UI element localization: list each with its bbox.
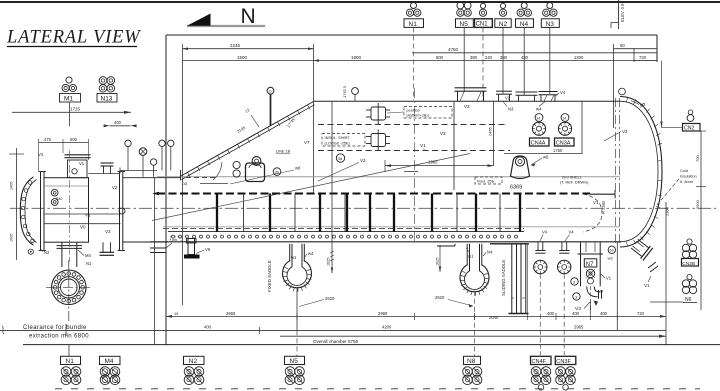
- interior vertical x493.5 with rotated dim 2465: [493, 101, 495, 166]
- svg-text:5. 8mm: 5. 8mm: [680, 179, 693, 184]
- svg-text:400: 400: [600, 311, 608, 316]
- frame right vertical: [656, 35, 658, 62]
- dim 2245: [183, 48, 314, 50]
- svg-text:N2: N2: [499, 21, 508, 28]
- svg-text:w8: w8: [295, 166, 301, 171]
- bundle pull diagonal line: [152, 154, 470, 221]
- svg-text:Insulation: Insulation: [680, 174, 697, 179]
- channel top nozzle V1: [68, 160, 88, 178]
- kettle top nozzle N3: [498, 94, 500, 101]
- svg-text:6369: 6369: [510, 185, 522, 191]
- svg-text:380: 380: [500, 55, 508, 60]
- weir dashed arc inside head: [583, 194, 602, 232]
- dim 1800: [314, 60, 413, 62]
- svg-text:400: 400: [572, 311, 580, 316]
- platform clip big square on cone: [246, 163, 265, 182]
- svg-text:M1: M1: [64, 96, 73, 103]
- bottom label CN3F group: [563, 345, 565, 357]
- note circles on small shell top left: [125, 140, 131, 146]
- small shell bottom left segment: [123, 241, 168, 243]
- svg-text:1725: 1725: [70, 107, 81, 112]
- svg-text:N1: N1: [66, 358, 75, 365]
- svg-text:N13: N13: [101, 96, 113, 103]
- svg-text:G: G: [269, 89, 272, 94]
- kettle top nozzle w4: [540, 95, 542, 102]
- kettle shell top line: [314, 100, 621, 102]
- svg-text:14: 14: [562, 116, 566, 120]
- svg-text:V3: V3: [440, 131, 446, 136]
- top nozzle label N5: [457, 2, 464, 9]
- vessel vertical centerline dash-dot: [414, 88, 416, 242]
- bottom label N2 group: [184, 356, 205, 364]
- channel bottom-right nozzle V4: [102, 242, 104, 252]
- svg-text:CN3F: CN3F: [556, 359, 571, 365]
- svg-text:1762.5: 1762.5: [342, 85, 347, 98]
- svg-text:FIXED SADDLE: FIXED SADDLE: [267, 260, 272, 292]
- dim extension vertical x313 (cone tip): [313, 44, 315, 194]
- svg-text:4200: 4200: [382, 325, 392, 330]
- svg-text:V2: V2: [622, 129, 628, 134]
- bottom dim row 1 y=316.4: [166, 315, 666, 317]
- head drain nozzle (inclined): [630, 237, 653, 260]
- svg-text:2665: 2665: [226, 311, 236, 316]
- V4 b flange circle: [558, 260, 571, 273]
- svg-text:R 2380: R 2380: [601, 200, 606, 214]
- Insul dashed label: [475, 177, 502, 184]
- channel top-right nozzle M4: [103, 166, 105, 174]
- svg-text:N5: N5: [460, 21, 469, 28]
- bonnet cover bolts: [21, 181, 34, 243]
- small shell / insulation top (gray): [157, 176, 620, 178]
- frame left vertical: [165, 35, 167, 345]
- dim 475 / 500 above channel: [39, 142, 89, 144]
- svg-text:N7: N7: [586, 262, 594, 268]
- svg-text:INSUL. SHIRT: INSUL. SHIRT: [325, 135, 351, 140]
- bottom border line y=344.6: [23, 344, 720, 346]
- svg-text:CN1: CN1: [476, 22, 489, 28]
- small dim line under circles: [120, 170, 157, 172]
- CN3A flange symbol: [561, 114, 569, 122]
- svg-text:4760: 4760: [448, 47, 459, 52]
- svg-text:w3: w3: [640, 102, 646, 107]
- dim 1500: [183, 60, 314, 62]
- svg-text:2620: 2620: [325, 296, 335, 301]
- pipe centerline dashed: [68, 242, 70, 262]
- svg-text:V4: V4: [38, 152, 44, 157]
- N7 elbow to V3: [587, 286, 598, 296]
- kettle top nozzle V3 (big): [457, 91, 459, 101]
- svg-text:V4: V4: [599, 290, 604, 294]
- svg-text:1300: 1300: [574, 55, 584, 60]
- top border line: [0, 1, 720, 3]
- V4 a flange circle: [534, 260, 547, 273]
- svg-text:V1: V1: [85, 213, 91, 218]
- flag circle G on cone with stem: [267, 87, 274, 94]
- svg-text:M4: M4: [85, 253, 91, 258]
- svg-text:N: N: [241, 5, 256, 28]
- flange centerlines: [46, 286, 92, 288]
- svg-text:720: 720: [637, 311, 645, 316]
- svg-text:N1: N1: [409, 21, 418, 28]
- dim 1965: [385, 165, 494, 167]
- circle 38 below cone: [336, 154, 344, 162]
- svg-text:V7: V7: [304, 140, 310, 145]
- svg-text:w3: w3: [608, 256, 614, 261]
- small shell top left segment: [123, 177, 180, 179]
- svg-text:19: 19: [174, 312, 178, 316]
- right head small outline marks: [648, 262, 656, 268]
- w9 dashed label: [171, 237, 182, 243]
- svg-text:1500: 1500: [237, 55, 248, 60]
- svg-text:1905: 1905: [10, 234, 14, 242]
- fixed saddle stem: [296, 288, 298, 331]
- svg-text:60: 60: [620, 43, 625, 48]
- dashed lines inside kettle: [318, 124, 508, 126]
- sliding saddle plates: [512, 244, 517, 314]
- V4 a dashed stem: [539, 274, 541, 345]
- svg-text:CN4F: CN4F: [532, 359, 547, 365]
- dim 400 left: [110, 125, 131, 127]
- sliding strip dashed gray line: [163, 228, 524, 230]
- svg-text:(LOOSE -25E): (LOOSE -25E): [325, 141, 351, 146]
- angle arc at cone base: [213, 162, 222, 180]
- baffle bars (thick): [217, 194, 520, 232]
- svg-text:M4: M4: [105, 358, 114, 365]
- baffle bars (thin): [244, 194, 501, 232]
- vertical line x582: [581, 101, 583, 154]
- V4 b dashed stem: [563, 274, 565, 345]
- short pipe stubs left of saddle: [150, 247, 166, 249]
- bottom nozzle V4 a: [537, 242, 539, 251]
- nozzle group M1 (top left): [66, 77, 72, 83]
- svg-text:V3: V3: [360, 158, 366, 163]
- svg-text:1625: 1625: [327, 258, 331, 266]
- bottom label N1 group: [68, 345, 70, 357]
- svg-text:2990: 2990: [378, 311, 388, 316]
- svg-text:CN4A: CN4A: [531, 141, 546, 147]
- svg-text:V1: V1: [420, 143, 426, 149]
- svg-text:w1: w1: [291, 255, 297, 260]
- bundle bottom gray line: [163, 226, 620, 228]
- svg-text:V1: V1: [593, 200, 599, 205]
- svg-text:12: 12: [244, 107, 251, 114]
- svg-text:N3: N3: [546, 21, 555, 28]
- svg-text:CN2B: CN2B: [682, 261, 695, 267]
- overall chamber dim line y=336.2: [280, 335, 666, 337]
- svg-text:17°45': 17°45': [286, 116, 297, 128]
- svg-text:63: 63: [610, 249, 614, 253]
- svg-text:w1: w1: [468, 254, 474, 259]
- top nozzle label N2: [500, 3, 505, 8]
- svg-text:2195: 2195: [236, 125, 247, 134]
- nozzle N7 drop pipe: [580, 242, 582, 287]
- svg-text:w4: w4: [308, 251, 314, 256]
- bottom label N8 group: [464, 356, 481, 364]
- CN4A flange symbol: [535, 114, 543, 122]
- lifting trunnion 6369: [515, 157, 524, 166]
- tick marker at x66 (clearance start): [65, 324, 67, 336]
- svg-text:B40: B40: [56, 197, 62, 201]
- cone lower line hatch ticks: [188, 105, 311, 177]
- svg-text:900: 900: [436, 55, 444, 60]
- svg-text:14: 14: [536, 116, 540, 120]
- top nozzle label N3: [547, 3, 553, 9]
- svg-text:V9: V9: [205, 247, 211, 252]
- dim row 900/380/240/380/430/1300: [412, 60, 657, 62]
- insul shirt dashed label box: [322, 134, 365, 147]
- nozzle group N13 (top left): [99, 77, 107, 85]
- svg-text:w8: w8: [543, 155, 549, 160]
- svg-text:720: 720: [639, 55, 647, 60]
- svg-text:3: 3: [575, 295, 577, 299]
- svg-text:2040: 2040: [489, 315, 499, 320]
- svg-text:Clearance for bundle: Clearance for bundle: [23, 325, 87, 331]
- svg-text:V4: V4: [542, 230, 548, 235]
- svg-text:380: 380: [470, 55, 478, 60]
- right elliptical head inner: [620, 101, 658, 242]
- right elliptical head outer: [620, 97, 662, 248]
- svg-text:N1: N1: [86, 261, 92, 266]
- fixed saddle anchor bolt: [188, 239, 195, 255]
- svg-text:1750: 1750: [553, 148, 563, 153]
- bottom label M4 group: [100, 356, 121, 364]
- svg-text:V1: V1: [644, 283, 650, 288]
- svg-text:430: 430: [521, 55, 529, 60]
- tube support strip bottom / shell bottom: [150, 241, 621, 243]
- svg-text:15: 15: [183, 182, 187, 186]
- svg-text:N4: N4: [487, 250, 493, 255]
- svg-text:LINE 1B: LINE 1B: [276, 150, 291, 154]
- svg-text:2965: 2965: [574, 325, 584, 330]
- head tangent dash-dot vertical: [614, 98, 616, 246]
- svg-text:N3: N3: [508, 107, 514, 112]
- svg-text:2300: 2300: [665, 206, 670, 216]
- svg-text:1625: 1625: [436, 258, 440, 266]
- flag circle on head top: [619, 88, 626, 95]
- B05 instrument circle: [28, 249, 33, 254]
- fixed saddle U-bolt: [282, 244, 311, 288]
- svg-text:ELEV. 0.91: ELEV. 0.91: [620, 1, 625, 22]
- svg-text:Overall chamber 5750: Overall chamber 5750: [313, 339, 359, 344]
- tube bundle top (bold dashed): [157, 193, 590, 195]
- svg-text:2465: 2465: [488, 126, 493, 136]
- flag circle on kettle shell top: [352, 88, 359, 95]
- svg-text:3: 3: [573, 280, 575, 284]
- platform clips on shell (cross symbols): [366, 103, 390, 151]
- svg-text:N4: N4: [520, 21, 529, 28]
- svg-text:Insul. 25E: Insul. 25E: [477, 178, 495, 183]
- svg-text:400: 400: [114, 120, 122, 125]
- svg-text:500: 500: [70, 137, 78, 142]
- svg-text:V1: V1: [606, 276, 612, 281]
- vessel centerline (dash-dot): [10, 207, 716, 209]
- top nozzle label N4: [521, 3, 527, 9]
- svg-text:V4: V4: [569, 230, 575, 235]
- elevation mark EL 0.91: [618, 0, 620, 29]
- svg-text:2620: 2620: [435, 295, 445, 300]
- svg-text:w4: w4: [536, 107, 542, 112]
- channel interior bolts: [51, 189, 58, 196]
- N7 flange stack: [586, 269, 594, 277]
- svg-text:240: 240: [485, 55, 493, 60]
- svg-text:1405: 1405: [10, 182, 14, 190]
- CN2B label group: [687, 239, 692, 244]
- svg-text:400: 400: [204, 325, 212, 330]
- svg-text:Cold: Cold: [680, 168, 688, 173]
- platform clip circles left: [233, 161, 240, 168]
- svg-text:CN3A: CN3A: [556, 141, 571, 147]
- svg-text:1800: 1800: [351, 55, 362, 60]
- sliding saddle stem: [474, 291, 476, 331]
- top nozzle label CN1: [480, 3, 485, 8]
- tubesheet flange: [119, 172, 121, 251]
- frame top edge: [166, 34, 657, 36]
- tube support strip top: [168, 231, 524, 233]
- left dim vertical: [16, 148, 18, 260]
- interior vertical x454: [453, 101, 455, 190]
- note circles near N7: [571, 278, 578, 285]
- svg-text:platform clips: platform clips: [407, 113, 430, 118]
- circle 39 right of clip: [273, 168, 281, 176]
- svg-text:V3: V3: [105, 229, 111, 234]
- channel bottom nozzle pipe: [61, 242, 63, 267]
- ticks on row1: [297, 301, 617, 320]
- position platform clips label: [404, 107, 452, 119]
- svg-text:N5: N5: [290, 358, 299, 365]
- svg-text:SLIDING SADDLE: SLIDING SADDLE: [501, 260, 506, 296]
- head insulation hatch ticks: [626, 97, 662, 246]
- right dim verticals: [616, 242, 618, 331]
- bottom dim row 2 y=330.4 full: [0, 329, 666, 331]
- channel pass partition lines: [44, 213, 121, 215]
- north arrow: [187, 25, 265, 27]
- cone transition (double line): [180, 102, 314, 177]
- bottom label CN4F group: [539, 345, 541, 357]
- svg-text:N2: N2: [44, 250, 50, 255]
- dim 1750: [504, 153, 582, 155]
- svg-text:400: 400: [547, 311, 555, 316]
- svg-text:38: 38: [338, 157, 342, 161]
- svg-text:2500: 2500: [695, 199, 700, 209]
- svg-text:V3: V3: [464, 104, 470, 109]
- dim extension vertical x182: [182, 44, 184, 305]
- svg-text:V0: V0: [80, 225, 86, 230]
- svg-text:extraction min 6800: extraction min 6800: [29, 334, 89, 340]
- dim 1725 left: [12, 111, 131, 113]
- svg-text:w9: w9: [172, 237, 177, 242]
- N6 label group: [687, 274, 692, 279]
- svg-text:N8: N8: [467, 358, 476, 365]
- bottom dotted line: [55, 388, 700, 390]
- svg-text:475: 475: [44, 137, 52, 142]
- bottom nozzle big flange (end view): [52, 270, 86, 304]
- bottom label N5 group: [285, 356, 305, 364]
- strip roller circles: [172, 235, 518, 238]
- svg-text:V1: V1: [79, 161, 85, 166]
- svg-text:N2: N2: [189, 358, 198, 365]
- svg-text:700: 700: [695, 155, 700, 162]
- bottom nozzle V4 b: [561, 242, 563, 251]
- svg-text:V2: V2: [112, 185, 118, 190]
- sliding saddle U-bolt: [460, 244, 489, 292]
- svg-text:2245: 2245: [230, 43, 241, 48]
- top nozzle label N1: [411, 3, 417, 9]
- girth flange: [40, 172, 42, 251]
- chain dim vertical x332: [331, 101, 333, 273]
- dim 4760: [412, 52, 657, 54]
- svg-text:CN2: CN2: [684, 126, 694, 132]
- channel body: [44, 178, 89, 243]
- svg-text:(T. REF. DRWG): (T. REF. DRWG): [560, 180, 589, 185]
- svg-text:V1: V1: [505, 96, 511, 101]
- CN2 label right: [687, 115, 694, 122]
- svg-text:1965: 1965: [428, 160, 438, 165]
- svg-text:LATERAL VIEW: LATERAL VIEW: [6, 28, 141, 48]
- notch lines above sliding u-bolt: [454, 244, 456, 246]
- svg-text:V4: V4: [560, 90, 566, 95]
- bonnet dished cover arc (left end): [20, 177, 33, 245]
- kettle top nozzle V1 (wide): [518, 95, 520, 101]
